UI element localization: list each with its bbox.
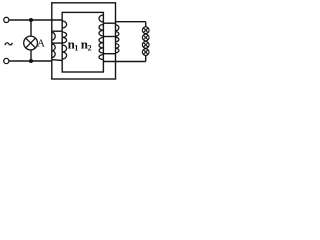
svg-text:1: 1 [74, 43, 78, 52]
svg-text:A: A [37, 37, 45, 49]
svg-text:2: 2 [88, 43, 92, 52]
